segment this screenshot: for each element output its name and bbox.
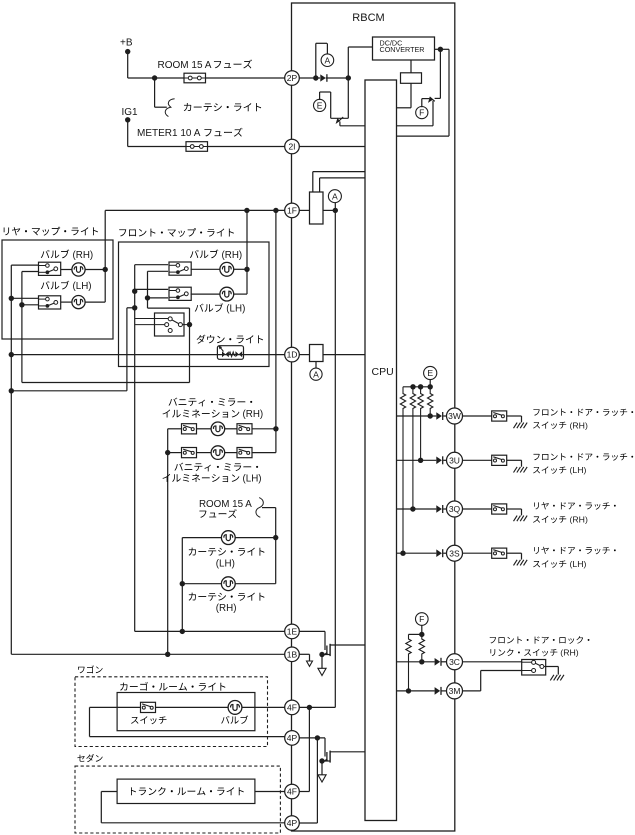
label 3U xyxy=(533,453,633,475)
junction xyxy=(145,295,150,300)
svg-text:4P: 4P xyxy=(287,733,298,743)
connector 2P xyxy=(285,71,300,86)
resistor R5 xyxy=(428,387,433,416)
transistor Q3 xyxy=(322,644,365,656)
node E xyxy=(314,99,326,111)
wire xyxy=(168,429,182,655)
switch door latch 3W xyxy=(492,411,507,421)
wire xyxy=(321,761,323,775)
wire xyxy=(252,452,276,454)
svg-text:(RH): (RH) xyxy=(570,420,588,430)
svg-text:ROOM 15 A: ROOM 15 A xyxy=(199,499,252,510)
wire xyxy=(323,209,335,211)
junction xyxy=(273,426,278,431)
label front map light xyxy=(119,228,234,237)
bulb rear map RH xyxy=(72,263,85,276)
resistor R6 xyxy=(406,634,411,691)
junction xyxy=(132,289,137,294)
switch S2 rear LH xyxy=(39,296,61,309)
svg-text:IG1: IG1 xyxy=(122,107,139,118)
switch S6 xyxy=(182,424,197,434)
svg-text:RBCM: RBCM xyxy=(352,12,384,24)
label 3W xyxy=(533,409,633,431)
diode D 3W xyxy=(436,412,447,420)
wire xyxy=(397,125,434,127)
connector 4P xyxy=(285,731,300,746)
junction xyxy=(400,551,405,556)
switch door lock link xyxy=(522,660,546,676)
wire xyxy=(429,380,431,387)
wire xyxy=(299,707,309,791)
label bulb LH xyxy=(41,281,92,292)
connector 3S xyxy=(447,545,463,561)
wire xyxy=(463,671,522,691)
transistor Q1 xyxy=(331,78,349,126)
wire lamp feed rail xyxy=(334,210,336,707)
wire xyxy=(61,301,72,303)
wire xyxy=(225,452,237,454)
ground xyxy=(514,560,528,566)
svg-text:(RH): (RH) xyxy=(570,515,588,525)
wire xyxy=(421,625,423,634)
svg-text:(RH): (RH) xyxy=(243,409,264,420)
wire xyxy=(156,706,229,708)
node E xyxy=(424,366,437,379)
svg-text:2P: 2P xyxy=(287,73,298,83)
connector 1E xyxy=(285,624,300,639)
wire xyxy=(181,538,183,632)
wire rail rear upper xyxy=(11,265,38,654)
junction xyxy=(103,267,108,272)
node F xyxy=(416,107,428,119)
junction xyxy=(9,388,14,393)
label vanity mirror LH xyxy=(163,463,262,485)
wire xyxy=(397,49,450,136)
label ROOM 15A fuse xyxy=(158,60,253,71)
switch door latch 3S xyxy=(492,548,507,558)
svg-text:(RH): (RH) xyxy=(216,603,237,614)
wire xyxy=(235,537,276,539)
component box 1D xyxy=(310,345,324,362)
wire xyxy=(463,508,492,510)
svg-text:1D: 1D xyxy=(287,350,298,360)
bulb courtesy RH xyxy=(221,577,235,591)
wire xyxy=(463,459,492,461)
junction xyxy=(419,659,424,664)
wire xyxy=(299,737,325,739)
wire xyxy=(321,655,323,669)
junction xyxy=(346,75,351,80)
svg-text:METER1 10 A: METER1 10 A xyxy=(137,128,201,139)
label rear map light xyxy=(4,227,98,236)
CPU box xyxy=(365,80,397,821)
junction xyxy=(9,296,14,301)
junction xyxy=(187,322,192,327)
switch S7 xyxy=(237,424,252,434)
wire xyxy=(85,301,105,303)
wire 1B line xyxy=(11,653,284,655)
junction xyxy=(165,652,170,657)
svg-text:(LH): (LH) xyxy=(570,559,587,569)
junction xyxy=(315,735,320,740)
transistor Q2 xyxy=(428,49,440,126)
svg-text:4F: 4F xyxy=(287,787,297,797)
lamp down light xyxy=(217,345,243,359)
wire xyxy=(463,552,492,554)
switch S4 front LH xyxy=(169,287,191,300)
wire xyxy=(182,583,221,585)
wire xyxy=(397,508,437,510)
break symbol xyxy=(165,99,174,117)
svg-text:1F: 1F xyxy=(287,205,297,215)
ground arrow xyxy=(307,661,313,666)
switch door latch 3Q xyxy=(492,504,507,514)
label courtesy RH xyxy=(189,593,265,614)
wire xyxy=(85,210,105,302)
wire xyxy=(182,537,221,539)
svg-text:3U: 3U xyxy=(449,455,460,465)
junction xyxy=(152,75,157,80)
wire xyxy=(252,428,276,430)
junction xyxy=(165,450,170,455)
svg-text:(RH): (RH) xyxy=(222,250,243,261)
svg-text:3W: 3W xyxy=(448,411,461,421)
switch S10 cargo xyxy=(141,702,156,712)
sedan dashed box xyxy=(75,766,280,833)
wire xyxy=(320,178,365,192)
label switch xyxy=(131,716,166,724)
label courtesy LH xyxy=(189,548,265,570)
wire xyxy=(299,706,335,708)
wire xyxy=(262,508,276,584)
label vanity mirror RH xyxy=(163,398,264,421)
wire xyxy=(340,125,365,127)
wire xyxy=(234,293,247,295)
wire xyxy=(397,690,435,692)
wire xyxy=(299,354,309,356)
wire xyxy=(208,146,285,148)
junction xyxy=(319,758,324,763)
wire xyxy=(61,269,72,271)
svg-text:2I: 2I xyxy=(288,142,295,152)
svg-text:(LH): (LH) xyxy=(216,559,235,570)
junction xyxy=(406,688,411,693)
wire xyxy=(135,318,169,320)
label RBCM xyxy=(352,12,384,24)
node A xyxy=(310,368,322,380)
diode D 3S xyxy=(436,549,447,557)
connector 1F xyxy=(285,203,300,218)
resistor R3 xyxy=(410,387,415,509)
ground xyxy=(514,467,528,473)
label wagon xyxy=(78,665,103,673)
switch S5 down light xyxy=(155,313,185,336)
junction xyxy=(410,384,415,389)
wire xyxy=(206,77,285,79)
wire xyxy=(128,120,186,147)
svg-text:3C: 3C xyxy=(449,657,460,667)
bulb vanity LH xyxy=(211,446,225,460)
connector 3U xyxy=(447,452,463,468)
wire xyxy=(397,415,437,417)
wire xyxy=(324,738,326,757)
svg-text:3M: 3M xyxy=(449,686,461,696)
wire xyxy=(507,553,522,559)
ground arrow xyxy=(318,775,326,782)
label bulb RH xyxy=(190,250,242,261)
wire xyxy=(255,791,285,793)
wire E bus xyxy=(403,386,430,388)
node F xyxy=(416,613,429,626)
label down light xyxy=(197,335,264,344)
connector 4F trunk xyxy=(285,784,300,799)
wire xyxy=(191,268,220,270)
wire xyxy=(135,264,168,266)
label bulb LH xyxy=(195,303,246,314)
wire to courtesy light xyxy=(155,78,167,107)
svg-text:4P: 4P xyxy=(287,818,298,828)
wire xyxy=(299,209,309,211)
wire xyxy=(299,654,309,661)
resistor R4 xyxy=(418,387,423,461)
ground xyxy=(514,516,528,522)
wire 1D line xyxy=(11,354,284,356)
svg-text:A: A xyxy=(325,55,331,65)
connector 1B xyxy=(285,647,300,662)
wire xyxy=(323,354,365,356)
wire xyxy=(90,707,285,736)
wire 1E line xyxy=(135,630,285,632)
diode D1 xyxy=(320,74,348,82)
junction xyxy=(244,267,249,272)
junction xyxy=(273,535,278,540)
ground xyxy=(514,423,528,429)
wire 1F feed xyxy=(105,209,285,211)
svg-text:(LH): (LH) xyxy=(570,465,587,475)
wire xyxy=(135,288,168,290)
wire rail rear lower xyxy=(22,272,38,383)
junction xyxy=(319,652,324,657)
bulb front map LH xyxy=(220,287,234,301)
svg-text:1B: 1B xyxy=(287,649,298,659)
svg-text:(LH): (LH) xyxy=(73,281,92,292)
fuse ROOM 15A xyxy=(184,73,206,83)
svg-text:(LH): (LH) xyxy=(226,304,245,315)
transistor Q2 base xyxy=(422,99,430,108)
switch S9 xyxy=(237,448,252,458)
junction xyxy=(418,458,423,463)
label ROOM 15A fuse xyxy=(199,499,252,518)
junction xyxy=(9,352,14,357)
svg-text:3S: 3S xyxy=(449,548,460,558)
junction xyxy=(428,413,433,418)
wire xyxy=(234,210,247,294)
bulb cargo xyxy=(228,701,242,715)
wire xyxy=(397,661,435,663)
wire xyxy=(463,661,522,663)
DC/DC converter U1 xyxy=(373,37,435,60)
resistor R2 xyxy=(400,387,405,553)
resistor block R1 xyxy=(310,192,324,224)
junction xyxy=(132,305,137,310)
wire xyxy=(197,452,212,454)
diode D 3U xyxy=(436,456,447,464)
wire xyxy=(299,631,325,650)
junction xyxy=(19,302,24,307)
wire xyxy=(135,324,165,326)
trunk room light unit box xyxy=(117,779,255,803)
switch S3 front RH xyxy=(169,262,191,275)
svg-text:E: E xyxy=(427,368,433,378)
connector 4P trunk xyxy=(285,816,300,831)
label sedan xyxy=(77,754,102,762)
junction xyxy=(419,632,424,637)
wire rail front upper xyxy=(134,265,136,632)
wire xyxy=(242,706,285,708)
wire xyxy=(22,325,190,383)
junction xyxy=(438,47,443,52)
rear map light unit box xyxy=(2,240,113,339)
diode D 3C xyxy=(435,658,447,666)
ground arrow xyxy=(318,668,326,675)
label 3S xyxy=(533,547,616,569)
svg-text:F: F xyxy=(419,108,424,118)
wire xyxy=(348,47,372,78)
diode D 3Q xyxy=(436,505,447,513)
svg-text:(RH): (RH) xyxy=(73,250,94,261)
connector 1D xyxy=(285,347,300,362)
svg-text:CONVERTER: CONVERTER xyxy=(380,45,425,54)
svg-text:(LH): (LH) xyxy=(243,474,262,485)
node A stub xyxy=(334,203,336,211)
resistor R7 xyxy=(419,634,424,661)
wire xyxy=(11,308,134,391)
svg-text:1E: 1E xyxy=(287,626,298,636)
node A xyxy=(328,190,341,203)
svg-text:4F: 4F xyxy=(287,702,297,712)
wire xyxy=(313,172,365,192)
wire xyxy=(197,428,212,430)
junction xyxy=(244,208,249,213)
label METER1 10A fuse xyxy=(137,128,243,139)
node IG1 xyxy=(122,107,139,123)
connector 3C xyxy=(447,654,463,670)
connector 3M xyxy=(447,683,463,699)
label bulb xyxy=(221,716,248,724)
bulb front map RH xyxy=(220,262,234,276)
svg-text:F: F xyxy=(419,614,424,624)
svg-text:CPU: CPU xyxy=(372,366,394,378)
diode D 3M xyxy=(435,687,447,695)
switch door latch 3U xyxy=(492,455,507,465)
ground xyxy=(550,675,564,681)
wire xyxy=(299,77,320,79)
svg-text:E: E xyxy=(317,100,323,110)
svg-text:3Q: 3Q xyxy=(449,504,461,514)
junction node A xyxy=(333,208,338,213)
wire xyxy=(397,107,412,109)
wire xyxy=(182,324,189,326)
label bulb RH xyxy=(41,250,93,261)
junction xyxy=(273,208,278,213)
transistor Q1 base xyxy=(320,92,331,118)
cargo room light unit box xyxy=(117,693,255,731)
connector 3W xyxy=(447,408,463,424)
junction xyxy=(418,384,423,389)
svg-text:ROOM 15 A: ROOM 15 A xyxy=(158,60,212,71)
node +B xyxy=(120,37,133,54)
wire xyxy=(463,415,492,417)
bulb rear map LH xyxy=(72,296,85,309)
connector 4F xyxy=(285,700,300,715)
bulb courtesy LH xyxy=(221,531,235,545)
connector 3Q xyxy=(447,501,463,517)
wire xyxy=(148,270,169,272)
wire xyxy=(546,667,559,675)
RBCM module box xyxy=(292,3,455,831)
svg-text:A: A xyxy=(313,369,319,379)
wire xyxy=(507,509,522,515)
front map light unit box xyxy=(119,242,270,367)
bulb vanity RH xyxy=(211,422,225,436)
wire xyxy=(128,52,184,78)
node A stub xyxy=(315,362,317,369)
label door lock link xyxy=(490,636,590,658)
wire xyxy=(397,459,437,461)
label 3Q xyxy=(533,502,616,524)
label trunk room light xyxy=(131,787,244,795)
label CPU xyxy=(372,366,394,378)
junction xyxy=(307,705,312,710)
wire xyxy=(299,738,317,823)
switch S1 rear RH xyxy=(39,262,61,275)
wire xyxy=(507,416,522,422)
node A xyxy=(321,54,334,67)
wire xyxy=(397,552,437,554)
junction xyxy=(410,506,415,511)
junction xyxy=(180,629,185,634)
junction xyxy=(428,384,433,389)
wire rail front lower xyxy=(148,271,190,324)
label cargo room light xyxy=(120,682,225,691)
wire xyxy=(191,293,220,295)
wire xyxy=(507,460,522,466)
svg-text:+B: +B xyxy=(120,37,133,48)
relay K1 xyxy=(401,60,422,108)
wagon dashed box xyxy=(75,677,268,747)
junction xyxy=(313,75,318,80)
switch S8 xyxy=(182,448,197,458)
wire vanity rail xyxy=(275,210,277,452)
label courtesy light xyxy=(184,103,261,111)
node A stub xyxy=(316,43,328,78)
svg-text:(RH): (RH) xyxy=(560,648,578,658)
wire xyxy=(168,452,182,454)
wire F bus xyxy=(409,633,422,635)
break symbol xyxy=(256,498,263,518)
wire xyxy=(225,428,237,430)
junction xyxy=(180,581,185,586)
svg-text:A: A xyxy=(332,191,338,201)
transistor Q4 xyxy=(322,751,365,763)
wire xyxy=(235,583,276,585)
wire xyxy=(299,146,365,148)
fuse METER1 10A xyxy=(186,142,208,152)
connector 2I xyxy=(285,139,300,154)
wire xyxy=(148,297,169,299)
wire xyxy=(101,792,284,823)
